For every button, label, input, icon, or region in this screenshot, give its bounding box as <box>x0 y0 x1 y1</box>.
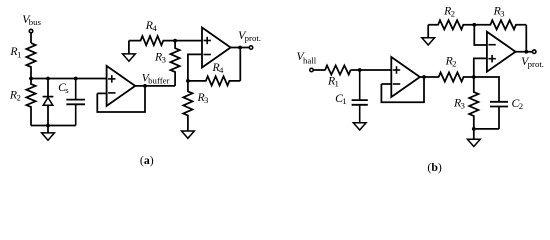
node diode top <box>46 77 50 81</box>
wire bottom rail (b) <box>474 128 499 130</box>
label V_bus <box>22 13 41 27</box>
ground bottom (b) <box>467 129 480 147</box>
svg-text:R3: R3 <box>197 91 210 105</box>
resistor R2 to ground (b) <box>428 5 474 30</box>
wire V_hall to R1 <box>314 69 326 71</box>
wire node D to U4 inverting input <box>474 25 487 45</box>
node D junction <box>472 23 476 27</box>
node V_buffer <box>143 84 147 88</box>
svg-text:R1: R1 <box>327 75 339 89</box>
node C feedback junction <box>186 79 190 83</box>
wire U2 inverting input <box>188 54 202 81</box>
node bottom junction (b) <box>472 127 476 131</box>
node E junction <box>472 75 476 79</box>
node A top junction <box>173 39 177 43</box>
svg-text:(b): (b) <box>427 160 442 174</box>
svg-text:R2: R2 <box>9 89 21 103</box>
svg-text:Vbus: Vbus <box>22 13 41 27</box>
wire U3 feedback loop <box>381 77 424 102</box>
ground C1 <box>353 123 366 130</box>
node bottom rail junction <box>46 124 50 128</box>
svg-text:C2: C2 <box>512 97 524 111</box>
resistor R4 to ground <box>129 19 175 45</box>
resistor R4 feedback <box>188 61 240 86</box>
node C1 junction <box>358 68 362 72</box>
svg-text:Cs: Cs <box>58 81 69 95</box>
wire node E to C2 <box>474 77 499 102</box>
capacitor C2 <box>490 97 523 129</box>
svg-text:R4: R4 <box>212 61 225 75</box>
resistor R3 feedback (b) <box>474 5 526 30</box>
label (a) <box>140 153 154 167</box>
resistor R2 gain <box>439 55 474 82</box>
resistor R3 to ground <box>183 81 209 131</box>
ground R2 left (b) <box>422 25 435 45</box>
label V_hall <box>297 50 317 65</box>
wire divider rail to op-amp U1 + <box>31 78 107 80</box>
node capacitor Cs top <box>74 77 78 81</box>
wire U1 output to R3 <box>135 85 175 87</box>
label V_prot (a) <box>238 29 261 43</box>
terminal V_prot (b) <box>532 50 536 54</box>
wire R4 feedback to output <box>239 48 241 81</box>
wire U1 inverting input stub <box>97 92 106 94</box>
ground R3 bottom <box>182 131 195 138</box>
op-amp U3 buffer <box>391 57 420 97</box>
label V_buffer <box>142 72 170 86</box>
resistor R1 <box>9 43 35 78</box>
wire R1 to op-amp U3 + <box>351 69 392 71</box>
resistor R1 (b) <box>325 65 351 88</box>
wire bottom rail <box>31 125 76 127</box>
svg-text:Vprot.: Vprot. <box>238 29 261 43</box>
svg-text:(a): (a) <box>140 153 154 167</box>
terminal V_prot (a) <box>249 46 253 50</box>
node output (a) <box>238 46 242 50</box>
capacitor C1 <box>335 70 368 123</box>
svg-text:R3: R3 <box>453 97 466 111</box>
ground divider <box>42 126 55 141</box>
node output (b) <box>524 50 528 54</box>
svg-text:C1: C1 <box>335 92 347 106</box>
wire U3 inverting input stub <box>381 83 391 85</box>
svg-text:R4: R4 <box>145 19 158 33</box>
resistor R3 level-shift <box>154 41 180 86</box>
diode D1 <box>43 79 54 126</box>
ground R4 left <box>123 41 136 62</box>
wire U4 output <box>516 51 533 53</box>
svg-text:R1: R1 <box>9 45 21 59</box>
svg-text:Vprot.: Vprot. <box>521 55 544 69</box>
op-amp U2 <box>202 28 231 68</box>
terminal V_hall <box>310 68 314 72</box>
wire U3 output to R2 <box>420 76 439 78</box>
wire node A to op-amp U2 + <box>175 40 202 42</box>
resistor R3 filter <box>453 77 478 129</box>
op-amp U1 buffer <box>107 66 136 106</box>
capacitor Cs <box>58 79 85 126</box>
terminal V_bus <box>29 29 33 32</box>
wire U2 output <box>231 47 250 49</box>
resistor R2 <box>9 79 36 126</box>
label (b) <box>427 160 442 174</box>
svg-text:R3: R3 <box>493 5 506 19</box>
node U3 output <box>422 75 426 79</box>
svg-text:R2: R2 <box>445 55 457 69</box>
svg-text:Vbuffer: Vbuffer <box>142 72 170 86</box>
svg-text:Vhall: Vhall <box>297 50 317 65</box>
op-amp U4 <box>487 32 516 72</box>
wire U1 feedback loop <box>97 86 145 112</box>
svg-text:R2: R2 <box>443 5 455 19</box>
label V_prot (b) <box>521 55 544 69</box>
wire node E to op-amp U4 + <box>474 58 487 77</box>
svg-text:R3: R3 <box>154 51 167 65</box>
wire R3 feedback to output (b) <box>525 25 527 52</box>
wire V_bus terminal to R1 <box>30 33 32 43</box>
node divider junction <box>29 77 33 81</box>
